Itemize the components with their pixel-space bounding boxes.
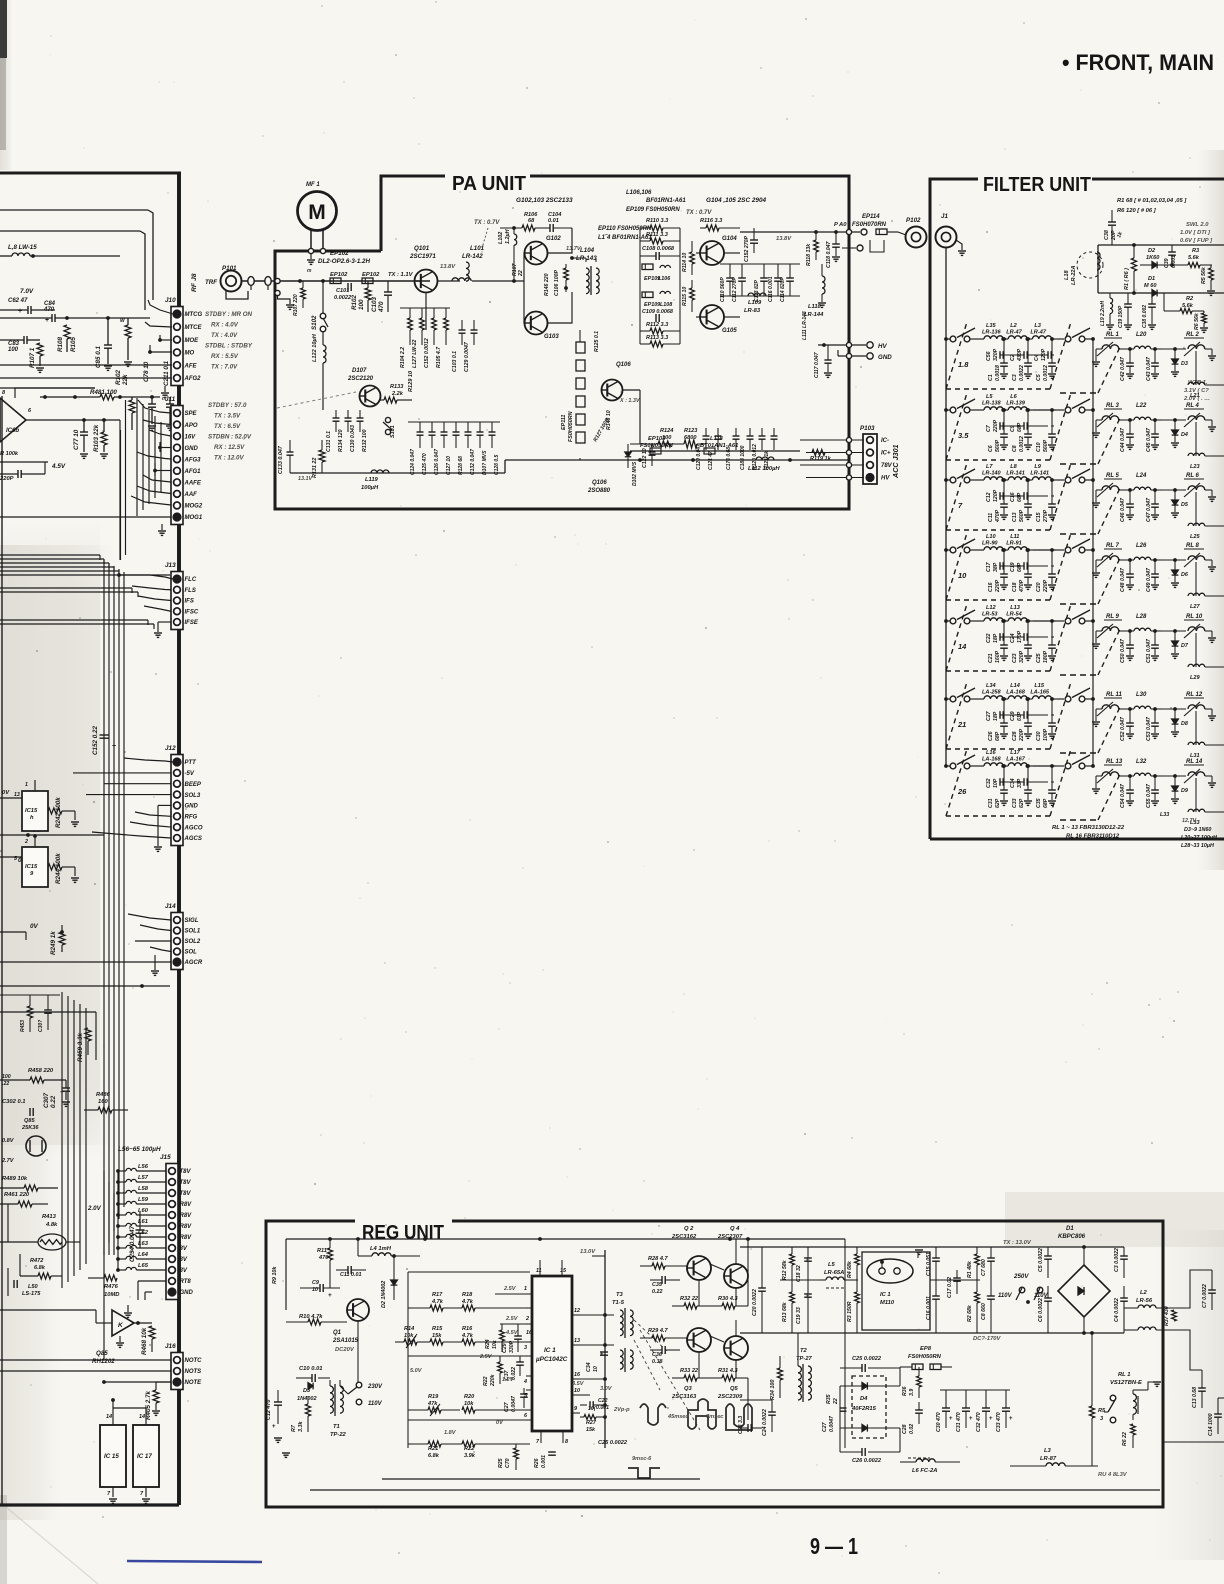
diode D4 — [1174, 420, 1176, 430]
wire HV GND stubs — [818, 344, 866, 346]
pin J12.2 -5V — [174, 769, 181, 776]
svg-text:LR-138: LR-138 — [982, 401, 1002, 407]
svg-text:R105 4.7: R105 4.7 — [436, 346, 442, 368]
svg-text:C13: C13 — [1012, 512, 1018, 522]
svg-text:EP109: EP109 — [644, 276, 660, 282]
svg-text:0.0047: 0.0047 — [829, 1415, 835, 1432]
svg-text:L58: L58 — [138, 1186, 149, 1192]
wire J15 verticals — [117, 1171, 119, 1270]
svg-text:110V: 110V — [998, 1293, 1013, 1299]
wire reg left bottom — [282, 1452, 290, 1454]
svg-text:0.001: 0.001 — [541, 1455, 547, 1468]
transistor Q106 driver — [602, 380, 623, 401]
svg-text:C32: C32 — [986, 778, 992, 788]
svg-text:220P: 220P — [0, 476, 14, 482]
svg-text:C116 0.001: C116 0.001 — [768, 276, 774, 302]
svg-text:BF01RN1-A61: BF01RN1-A61 — [646, 198, 686, 204]
pin J13.4 IFSC — [174, 608, 181, 615]
svg-text:MO: MO — [185, 351, 195, 357]
IC17 block — [133, 1425, 159, 1487]
svg-text:+: + — [60, 1089, 64, 1096]
wire right page edge — [1163, 1441, 1224, 1443]
svg-text:LA-168: LA-168 — [982, 757, 1002, 763]
svg-text:R2: R2 — [1186, 296, 1194, 302]
svg-text:2Vp-p: 2Vp-p — [613, 1407, 630, 1413]
svg-text:TP-22: TP-22 — [330, 1432, 347, 1438]
svg-text:MOG2: MOG2 — [185, 504, 203, 510]
svg-text:R36: R36 — [902, 1386, 908, 1396]
svg-text:J15: J15 — [160, 1154, 171, 1161]
svg-text:C128 0.5: C128 0.5 — [494, 454, 500, 475]
svg-text:C211 0.1: C211 0.1 — [163, 360, 170, 386]
svg-text:C22: C22 — [598, 1398, 608, 1404]
pin J14.2 SOL1 — [174, 927, 181, 934]
svg-text:14: 14 — [139, 1414, 145, 1420]
svg-text:EP109 FS0H050RN: EP109 FS0H050RN — [626, 207, 680, 213]
svg-text:LR-22A: LR-22A — [1071, 265, 1077, 285]
svg-text:SPE: SPE — [185, 411, 198, 417]
svg-text:330P: 330P — [509, 1340, 515, 1353]
pin J11.8 AAF — [174, 490, 181, 497]
svg-text:7.0V: 7.0V — [20, 288, 34, 295]
svg-text:L,8 LW-15: L,8 LW-15 — [8, 244, 37, 251]
svg-text:C28: C28 — [902, 1424, 908, 1434]
svg-text:SOL3: SOL3 — [185, 793, 201, 799]
svg-text:IFSE: IFSE — [185, 620, 199, 626]
svg-text:C20: C20 — [1036, 582, 1042, 592]
svg-text:0.0022: 0.0022 — [1019, 365, 1025, 381]
pin J13.2 FLS — [174, 586, 181, 593]
svg-text:C28: C28 — [1012, 731, 1018, 741]
svg-text:L13: L13 — [1010, 605, 1021, 611]
svg-text:C12: C12 — [986, 492, 992, 502]
diode block D4 40F2R15 — [852, 1376, 886, 1438]
svg-text:M: M — [308, 201, 326, 224]
wire series cap rail 3.5 — [1000, 425, 1004, 427]
svg-text:R458 220: R458 220 — [28, 1068, 54, 1074]
svg-text:RL 12: RL 12 — [1186, 692, 1203, 698]
svg-text:G103: G103 — [544, 334, 559, 340]
svg-text:C34: C34 — [586, 1362, 592, 1372]
connector J10 — [171, 307, 183, 386]
pin J12.5 GND — [174, 802, 181, 809]
svg-text:L122 10µH: L122 10µH — [312, 333, 318, 362]
svg-text:L27: L27 — [1190, 604, 1201, 610]
svg-text:R468 10k: R468 10k — [141, 1327, 148, 1355]
svg-text:C5 0.0022: C5 0.0022 — [1038, 1248, 1044, 1272]
svg-text:.22: .22 — [2, 1081, 9, 1087]
svg-text:68P: 68P — [1043, 798, 1049, 808]
svg-text:T3: T3 — [616, 1292, 624, 1298]
svg-text:G102: G102 — [546, 236, 561, 242]
svg-text:R8V: R8V — [180, 1202, 193, 1208]
svg-text:RL 3: RL 3 — [1106, 403, 1120, 409]
svg-text:C47 0.047: C47 0.047 — [1146, 497, 1152, 522]
svg-text:0.22: 0.22 — [652, 1289, 663, 1295]
svg-text:18P: 18P — [993, 711, 999, 721]
svg-text:22: 22 — [518, 270, 524, 277]
svg-text:9 — 1: 9 — 1 — [810, 1533, 858, 1559]
svg-text:1.8: 1.8 — [958, 360, 969, 369]
svg-text:14: 14 — [958, 642, 967, 651]
svg-text:62P: 62P — [1019, 798, 1025, 808]
svg-text:C13 0.68: C13 0.68 — [1192, 1387, 1198, 1408]
svg-text:C103: C103 — [371, 296, 378, 312]
svg-text:L4 1mH: L4 1mH — [370, 1246, 392, 1252]
svg-text:2SC3162: 2SC3162 — [671, 1234, 697, 1240]
connector J14 — [171, 913, 183, 970]
IC1 pin stubs — [526, 1293, 532, 1295]
svg-text:0.38: 0.38 — [652, 1359, 663, 1365]
svg-text:15: 15 — [560, 1268, 567, 1274]
svg-text:RL 1: RL 1 — [1118, 1372, 1130, 1378]
svg-text:L106,106: L106,106 — [626, 190, 652, 196]
svg-text:KBPC806: KBPC806 — [1058, 1234, 1086, 1240]
connector J12 — [171, 755, 183, 846]
svg-text:L28: L28 — [1136, 614, 1147, 620]
svg-text:C1: C1 — [988, 374, 994, 381]
svg-text:15k: 15k — [586, 1427, 596, 1433]
svg-text:RL 8: RL 8 — [1186, 543, 1200, 549]
svg-text:25K36: 25K36 — [21, 1125, 39, 1131]
wire second stage verticals — [639, 228, 641, 344]
svg-text:1: 1 — [524, 1286, 527, 1292]
svg-text:AAF: AAF — [184, 492, 198, 498]
svg-text:AFG1: AFG1 — [184, 469, 202, 475]
svg-text:FLC: FLC — [185, 577, 197, 583]
svg-text:RL 14: RL 14 — [1186, 759, 1203, 765]
svg-text:1N4002: 1N4002 — [297, 1396, 317, 1402]
switch band 10 in — [946, 549, 950, 551]
svg-text:2SA1015: 2SA1015 — [332, 1338, 359, 1344]
svg-text:R114 10: R114 10 — [682, 253, 688, 272]
svg-text:LR-54: LR-54 — [1006, 612, 1022, 618]
EP109 rect pair upper — [642, 264, 653, 270]
svg-text:L8: L8 — [1010, 464, 1017, 470]
svg-text:P A0: P A0 — [834, 222, 847, 228]
svg-text:L5: L5 — [986, 394, 993, 400]
svg-text:2: 2 — [24, 839, 28, 845]
svg-text:L6 FC-2A: L6 FC-2A — [912, 1468, 937, 1474]
svg-text:RL 1 ~ 13 FBR3130D12-22: RL 1 ~ 13 FBR3130D12-22 — [1052, 825, 1125, 831]
svg-text:5.0V: 5.0V — [410, 1368, 423, 1374]
svg-text:R105: R105 — [70, 336, 77, 352]
svg-text:C16: C16 — [1010, 492, 1016, 502]
pin J13.5 IFSE — [174, 619, 181, 626]
pin J12.4 SOL3 — [174, 791, 181, 798]
wire rows mid — [0, 587, 132, 589]
svg-text:C152 0.0012: C152 0.0012 — [424, 338, 430, 368]
svg-text:D107: D107 — [352, 368, 367, 374]
svg-text:4.8k: 4.8k — [45, 1222, 58, 1228]
svg-text:FLS: FLS — [185, 588, 196, 594]
svg-text:R12 58k: R12 58k — [782, 1259, 788, 1280]
svg-text:LR-87: LR-87 — [1040, 1456, 1057, 1462]
svg-text:16V: 16V — [185, 434, 197, 440]
svg-text:EP102: EP102 — [330, 250, 349, 257]
svg-text:R8V: R8V — [180, 1235, 193, 1241]
wire Q104 Q105 join — [696, 252, 700, 254]
svg-text:C10 0.01: C10 0.01 — [299, 1366, 323, 1372]
IC1 M110 oval — [862, 1252, 930, 1330]
svg-text:R17: R17 — [432, 1292, 443, 1298]
svg-text:RT8: RT8 — [180, 1279, 192, 1285]
svg-text:NOTS: NOTS — [185, 1369, 202, 1375]
svg-text:3.3k: 3.3k — [298, 1421, 304, 1432]
svg-text:L65: L65 — [138, 1263, 149, 1269]
svg-text:REG UNIT: REG UNIT — [362, 1222, 444, 1244]
svg-text:11: 11 — [536, 1268, 542, 1274]
svg-text:C7 680: C7 680 — [981, 1259, 987, 1276]
wire series cap rail 21 — [1000, 714, 1004, 716]
svg-text:C50 0.047: C50 0.047 — [1120, 638, 1126, 663]
svg-text:RL 11: RL 11 — [1106, 692, 1122, 698]
svg-text:C44 0.047: C44 0.047 — [1120, 427, 1126, 452]
wire extra row — [0, 554, 100, 556]
pin J15.5 R8V — [169, 1212, 176, 1219]
svg-text:10(: 10( — [588, 1406, 597, 1412]
svg-text:DC?-170V: DC?-170V — [973, 1336, 1002, 1342]
wire bundle A vertical — [103, 560, 105, 1255]
svg-text:0.22: 0.22 — [50, 1095, 57, 1108]
svg-text:RL 1: RL 1 — [1106, 332, 1120, 338]
buffer amp Q85 RH1202 — [112, 1310, 134, 1336]
pin J15.7 R8V — [169, 1234, 176, 1241]
svg-text:C30?: C30? — [38, 1020, 44, 1032]
svg-text:PTT: PTT — [185, 760, 198, 766]
svg-text:C26 0.0022: C26 0.0022 — [852, 1458, 882, 1464]
pin J14.5 AGCR — [173, 958, 181, 966]
coil bumps horizontal at Q101 out — [452, 278, 471, 281]
svg-text:LR-139: LR-139 — [1006, 401, 1026, 407]
svg-text:R21: R21 — [428, 1446, 438, 1452]
svg-text:C39: C39 — [1164, 258, 1170, 268]
svg-text:R112 3.3: R112 3.3 — [646, 322, 669, 328]
svg-text:2.5V: 2.5V — [505, 1316, 519, 1322]
svg-text:2.0V: 2.0V — [87, 1205, 102, 1212]
svg-text:13: 13 — [574, 1338, 580, 1344]
pin J15.10 8V — [169, 1267, 176, 1274]
svg-text:T1: T1 — [333, 1424, 340, 1430]
switch band 14 in — [946, 620, 950, 622]
svg-text:D102 MVS: D102 MVS — [632, 461, 638, 486]
svg-text:L127 LW-22: L127 LW-22 — [412, 340, 418, 368]
svg-text:R31 4.3: R31 4.3 — [718, 1368, 738, 1374]
svg-text:C6: C6 — [988, 445, 994, 452]
svg-text:C103 0.1: C103 0.1 — [452, 351, 458, 372]
svg-text:8V: 8V — [180, 1246, 188, 1252]
svg-text:SWL 2.0: SWL 2.0 — [1186, 222, 1209, 228]
svg-text:C35: C35 — [652, 1282, 663, 1288]
switch band 7 out — [1065, 477, 1071, 483]
svg-text:L9: L9 — [1034, 464, 1041, 470]
svg-text:6.8k: 6.8k — [34, 1265, 46, 1271]
svg-text:R27: R27 — [586, 1420, 597, 1426]
svg-text:ACC J301: ACC J301 — [891, 444, 900, 479]
svg-text:LR-47: LR-47 — [1006, 330, 1022, 336]
svg-text:R26: R26 — [534, 1458, 540, 1468]
dashed link band 3.5 — [946, 393, 967, 460]
svg-text:RU 4 8L3V: RU 4 8L3V — [1098, 1472, 1128, 1478]
svg-text:0.02: 0.02 — [909, 1424, 915, 1434]
svg-text:AAFE: AAFE — [184, 481, 202, 487]
wire P101 to PA — [242, 280, 431, 282]
pin J10.6 AFG2 — [174, 375, 181, 382]
wire reg top rail — [286, 1238, 845, 1240]
svg-text:C3 0.0022: C3 0.0022 — [1114, 1248, 1120, 1272]
svg-text:C131 0.1: C131 0.1 — [326, 431, 332, 452]
svg-text:R28 4.7: R28 4.7 — [648, 1256, 668, 1262]
svg-text:C178 0.68: C178 0.68 — [726, 447, 732, 470]
svg-text:C18: C18 — [1012, 582, 1018, 592]
svg-text:C125 470: C125 470 — [422, 453, 428, 475]
wires into J14 — [128, 914, 171, 920]
svg-text:68P: 68P — [995, 731, 1001, 741]
wires into J12 — [124, 758, 173, 762]
svg-text:LR-83: LR-83 — [744, 308, 761, 314]
svg-text:MTCE: MTCE — [185, 325, 203, 331]
svg-text:13.8V: 13.8V — [776, 236, 792, 242]
svg-text:10k: 10k — [464, 1401, 474, 1407]
svg-text:R19: R19 — [428, 1394, 439, 1400]
svg-text:D6: D6 — [1181, 572, 1189, 578]
svg-text:R125 0.1: R125 0.1 — [594, 331, 600, 352]
blue pen mark — [127, 1561, 262, 1562]
svg-text:FS0H050RN: FS0H050RN — [908, 1354, 942, 1360]
pin J15.8 8V — [169, 1245, 176, 1252]
svg-text:220P: 220P — [995, 579, 1001, 593]
svg-text:GND: GND — [878, 354, 892, 361]
svg-text:C51 0.047: C51 0.047 — [1146, 638, 1152, 663]
filter band 1.8 row — [944, 337, 948, 341]
svg-text:SOL: SOL — [185, 950, 198, 956]
svg-text:8V: 8V — [180, 1268, 188, 1274]
svg-text:T1-5: T1-5 — [612, 1300, 625, 1306]
svg-text:R472: R472 — [30, 1258, 44, 1264]
svg-text:14: 14 — [106, 1414, 112, 1420]
svg-text:TX : 13.0V: TX : 13.0V — [1003, 1240, 1032, 1246]
svg-text:13: 13 — [14, 792, 20, 798]
svg-text:L16: L16 — [986, 750, 997, 756]
svg-text:3.5V: 3.5V — [572, 1381, 585, 1387]
connector J11 — [171, 406, 183, 525]
svg-text:0.0018: 0.0018 — [995, 365, 1001, 381]
switch band 10 out — [1065, 547, 1071, 553]
pin J11.10 MOG1 — [173, 513, 181, 521]
wires lower right — [740, 1399, 772, 1401]
svg-text:MTCG: MTCG — [185, 312, 203, 318]
svg-text:LR-142: LR-142 — [462, 253, 483, 260]
svg-text:R119 1k: R119 1k — [810, 456, 832, 462]
pin J15.11 RT8 — [169, 1278, 176, 1285]
svg-text:R133: R133 — [390, 384, 404, 390]
svg-text:R10 4.7k: R10 4.7k — [299, 1314, 323, 1320]
pin J15.4 R8V — [169, 1201, 176, 1208]
ground stub J13 — [157, 622, 159, 632]
svg-text:MOG1: MOG1 — [185, 515, 203, 521]
svg-text:1.2µH: 1.2µH — [505, 229, 511, 244]
ground below J12 — [154, 846, 162, 848]
transistor Q102 — [525, 242, 548, 265]
svg-text:C121 47: C121 47 — [708, 451, 714, 470]
svg-text:P103: P103 — [860, 425, 875, 432]
svg-text:R116 3.3: R116 3.3 — [700, 218, 723, 224]
pin J15.9 8V — [169, 1256, 176, 1263]
svg-text:L15: L15 — [1034, 683, 1045, 689]
svg-text:38P: 38P — [993, 562, 999, 572]
svg-text:C126 0.047: C126 0.047 — [434, 449, 440, 475]
svg-text:C27: C27 — [822, 1421, 828, 1432]
svg-text:C19 33: C19 33 — [796, 1307, 802, 1324]
pin J12.3 BEEP — [174, 780, 181, 787]
transistor Q3 — [687, 1328, 711, 1352]
svg-text:HV: HV — [878, 343, 887, 350]
svg-text:45msec: 45msec — [667, 1414, 689, 1420]
svg-text:L25: L25 — [1190, 534, 1201, 540]
svg-text:L28~33 10µH: L28~33 10µH — [1181, 843, 1214, 849]
transistor Q4 — [724, 1264, 748, 1288]
reg unit box — [266, 1221, 1163, 1507]
filter band 21 row — [944, 697, 948, 701]
svg-text:+: + — [328, 1292, 332, 1299]
svg-text:L20: L20 — [1136, 332, 1147, 338]
svg-text:C12 470: C12 470 — [266, 1400, 272, 1420]
dashed link band 26 — [946, 749, 967, 816]
svg-text:R15: R15 — [432, 1326, 443, 1332]
svg-text:R461 220: R461 220 — [4, 1192, 30, 1198]
svg-text:L22: L22 — [1136, 403, 1147, 409]
svg-text:22k: 22k — [122, 374, 129, 386]
filter band 3.5 row — [944, 408, 948, 412]
svg-text:C27: C27 — [504, 1401, 510, 1412]
pin J11.9 MOG2 — [174, 502, 181, 509]
connector J16 — [171, 1353, 183, 1390]
svg-text:G102,103 2SC2133: G102,103 2SC2133 — [516, 197, 573, 204]
pin J15.3 T8V — [169, 1190, 176, 1197]
svg-text:C5: C5 — [1036, 374, 1042, 381]
svg-text:L24: L24 — [1136, 473, 1147, 479]
pin J11.1 SPE — [174, 410, 181, 417]
svg-text:C24: C24 — [1010, 633, 1016, 643]
svg-text:26: 26 — [957, 787, 967, 796]
svg-text:C302 0.1: C302 0.1 — [2, 1099, 26, 1105]
svg-text:100: 100 — [8, 347, 19, 353]
svg-text:R121 1k: R121 1k — [764, 451, 770, 470]
svg-text:C15 0.051: C15 0.051 — [926, 1252, 932, 1276]
svg-text:RL 10: RL 10 — [1186, 614, 1203, 620]
svg-text:R18: R18 — [462, 1292, 473, 1298]
svg-text:IFS: IFS — [185, 599, 194, 605]
svg-text:1.8V: 1.8V — [444, 1430, 457, 1436]
pin J10.3 MOE — [174, 336, 181, 343]
dashed link band 10 — [946, 533, 967, 600]
svg-text:RL 9: RL 9 — [1106, 614, 1120, 620]
transistor Q105 — [700, 305, 724, 329]
svg-text:250V: 250V — [1013, 1273, 1029, 1280]
svg-text:R1 68 [ # 01,02,03,04 ,05 ]: R1 68 [ # 01,02,03,04 ,05 ] — [1117, 198, 1187, 204]
svg-text:L64: L64 — [138, 1252, 149, 1258]
svg-text:R124: R124 — [660, 428, 674, 434]
svg-text:C30: C30 — [1036, 731, 1042, 741]
svg-text:0.0012: 0.0012 — [1043, 365, 1049, 381]
svg-text:J10: J10 — [165, 297, 176, 304]
svg-text:L34: L34 — [986, 683, 997, 689]
svg-text:R134 120: R134 120 — [338, 429, 344, 452]
svg-text:NOTE: NOTE — [185, 1380, 203, 1386]
svg-text:C49 0.047: C49 0.047 — [1146, 567, 1152, 592]
svg-text:R476: R476 — [104, 1284, 119, 1290]
pin J12.7 AGCO — [174, 824, 181, 831]
